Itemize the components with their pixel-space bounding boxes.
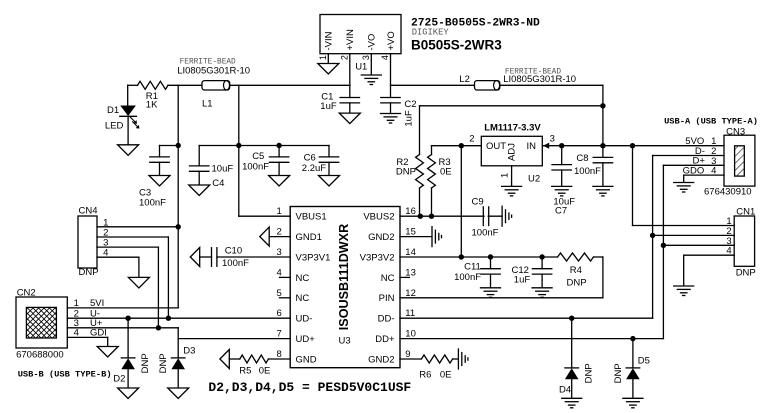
svg-text:D1: D1 xyxy=(107,105,119,116)
svg-text:670688000: 670688000 xyxy=(16,350,64,361)
svg-text:U1: U1 xyxy=(355,62,367,73)
svg-text:1: 1 xyxy=(499,173,510,178)
svg-text:R6: R6 xyxy=(419,370,431,381)
svg-text:1K: 1K xyxy=(146,100,158,111)
svg-text:0E: 0E xyxy=(440,166,452,177)
svg-text:100nF: 100nF xyxy=(454,272,481,283)
svg-text:DNP: DNP xyxy=(158,353,169,373)
svg-text:GND1: GND1 xyxy=(296,232,322,243)
svg-text:UD-: UD- xyxy=(296,314,313,325)
svg-text:DNP: DNP xyxy=(567,277,587,288)
svg-text:2.2uF: 2.2uF xyxy=(302,163,326,174)
svg-text:4: 4 xyxy=(726,246,731,257)
svg-text:D4: D4 xyxy=(559,384,571,395)
svg-text:DNP: DNP xyxy=(79,267,99,278)
svg-text:0E: 0E xyxy=(259,366,271,377)
svg-text:100nF: 100nF xyxy=(139,197,166,208)
svg-text:D3: D3 xyxy=(183,345,195,356)
svg-text:L2: L2 xyxy=(459,74,470,85)
svg-text:DNP: DNP xyxy=(613,363,624,383)
svg-text:1uF: 1uF xyxy=(514,275,531,286)
svg-text:NC: NC xyxy=(381,273,395,284)
svg-text:CN3: CN3 xyxy=(726,127,745,138)
svg-text:C8: C8 xyxy=(576,153,588,164)
svg-text:+VIN: +VIN xyxy=(345,29,356,51)
svg-text:4: 4 xyxy=(103,248,108,259)
svg-text:4: 4 xyxy=(380,55,390,60)
svg-text:USB-B (USB TYPE-B): USB-B (USB TYPE-B) xyxy=(18,369,112,379)
svg-text:100nF: 100nF xyxy=(242,161,269,172)
svg-text:D5: D5 xyxy=(638,356,650,367)
svg-text:3: 3 xyxy=(361,55,371,60)
svg-text:DNP: DNP xyxy=(396,166,416,177)
svg-text:LM1117-3.3V: LM1117-3.3V xyxy=(484,123,541,134)
svg-text:CN4: CN4 xyxy=(79,206,98,217)
svg-text:100nF: 100nF xyxy=(574,166,601,177)
svg-text:C6: C6 xyxy=(304,152,316,163)
svg-text:L1: L1 xyxy=(202,99,213,110)
svg-text:CN2: CN2 xyxy=(17,287,36,298)
svg-text:V3P3V2: V3P3V2 xyxy=(360,252,395,263)
svg-text:V3P3V1: V3P3V1 xyxy=(296,252,331,263)
svg-text:4: 4 xyxy=(74,328,79,339)
svg-text:LED: LED xyxy=(105,121,124,132)
svg-text:VBUS2: VBUS2 xyxy=(363,212,394,223)
svg-text:C10: C10 xyxy=(225,246,242,257)
svg-text:PIN: PIN xyxy=(379,293,395,304)
svg-text:LI0805G301R-10: LI0805G301R-10 xyxy=(503,74,576,85)
svg-text:3: 3 xyxy=(550,134,555,145)
svg-text:DIGIKEY: DIGIKEY xyxy=(412,28,450,38)
svg-text:4: 4 xyxy=(711,166,716,177)
svg-text:U2: U2 xyxy=(528,173,540,184)
svg-text:GND: GND xyxy=(296,354,317,365)
svg-text:1uF: 1uF xyxy=(320,101,337,112)
svg-text:DNP: DNP xyxy=(736,267,756,278)
svg-text:LI0805G301R-10: LI0805G301R-10 xyxy=(177,65,250,76)
svg-text:GDI: GDI xyxy=(90,328,107,339)
svg-text:1: 1 xyxy=(318,55,328,60)
svg-text:D2,D3,D4,D5 = PESD5V0C1USF: D2,D3,D4,D5 = PESD5V0C1USF xyxy=(208,380,411,395)
svg-text:2: 2 xyxy=(469,134,474,145)
svg-text:GDO: GDO xyxy=(683,166,705,177)
svg-text:UD+: UD+ xyxy=(296,334,316,345)
svg-text:R5: R5 xyxy=(239,366,251,377)
svg-text:ISOUSB111DWXR: ISOUSB111DWXR xyxy=(337,224,351,330)
svg-text:C9: C9 xyxy=(472,197,484,208)
svg-text:100nF: 100nF xyxy=(472,228,499,239)
svg-text:USB-A (USB TYPE-A): USB-A (USB TYPE-A) xyxy=(664,116,758,126)
svg-text:-VO: -VO xyxy=(367,34,378,51)
svg-text:D2: D2 xyxy=(113,374,125,385)
svg-text:10uF: 10uF xyxy=(212,164,234,175)
svg-text:IN: IN xyxy=(527,141,537,152)
svg-text:B0505S-2WR3: B0505S-2WR3 xyxy=(411,38,502,53)
svg-text:0E: 0E xyxy=(440,370,452,381)
svg-text:OUT: OUT xyxy=(486,141,506,152)
svg-text:R4: R4 xyxy=(570,265,582,276)
svg-text:1uF: 1uF xyxy=(404,110,415,127)
svg-text:2: 2 xyxy=(339,55,349,60)
svg-text:VBUS1: VBUS1 xyxy=(296,212,327,223)
svg-text:C4: C4 xyxy=(212,178,224,189)
svg-text:C7: C7 xyxy=(555,205,567,216)
svg-text:GND2: GND2 xyxy=(368,354,394,365)
svg-text:CN1: CN1 xyxy=(736,206,755,217)
svg-text:676430910: 676430910 xyxy=(704,186,752,197)
svg-text:DD-: DD- xyxy=(378,314,395,325)
svg-text:DNP: DNP xyxy=(140,353,151,373)
svg-text:NC: NC xyxy=(296,293,310,304)
svg-text:U3: U3 xyxy=(339,335,351,346)
svg-text:-VIN: -VIN xyxy=(324,31,335,50)
svg-text:1: 1 xyxy=(277,206,282,217)
svg-text:NC: NC xyxy=(296,273,310,284)
svg-text:DD+: DD+ xyxy=(375,334,395,345)
svg-text:+VO: +VO xyxy=(386,31,397,50)
svg-text:GND2: GND2 xyxy=(368,232,394,243)
svg-text:ADJ: ADJ xyxy=(507,143,518,161)
svg-text:C2: C2 xyxy=(404,99,416,110)
svg-text:100nF: 100nF xyxy=(222,258,249,269)
svg-text:DNP: DNP xyxy=(584,363,595,383)
